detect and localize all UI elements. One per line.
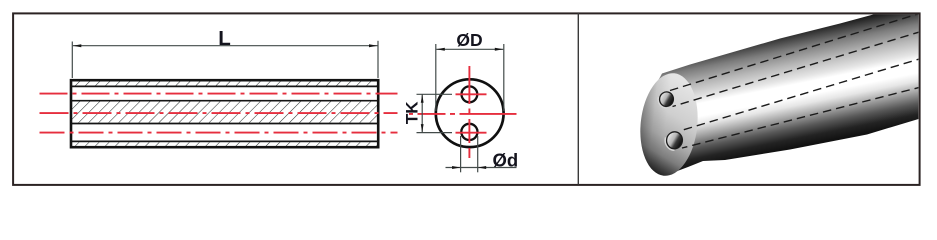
dimension TK: bottom extension line: [417, 132, 453, 134]
rod end face: [635, 70, 702, 178]
section: red centerline top hole: [456, 93, 488, 95]
section: red vertical centerline: [468, 66, 470, 160]
section: top hole circle: [462, 86, 478, 102]
outer frame: [13, 13, 920, 185]
side view: red centerline top hole: [40, 93, 398, 95]
svg-text:Ød: Ød: [493, 150, 519, 171]
section: big circle: [436, 79, 504, 147]
dashed hidden line 3 (bottom hole upper): [680, 59, 922, 132]
end face top hole: [658, 91, 674, 108]
dimension TK: top arrow: [421, 94, 424, 103]
dimension TK: bottom arrow: [421, 124, 424, 133]
end face bottom hole: [665, 131, 684, 150]
svg-text:ØD: ØD: [456, 30, 482, 50]
section: red centerline bottom hole: [456, 132, 488, 134]
end face left rim shade: [635, 70, 702, 178]
dashed hidden line 4 (bottom hole lower): [682, 87, 921, 148]
dimension D: right extension line: [503, 44, 505, 111]
svg-text:L: L: [218, 27, 231, 50]
section: red horizontal centerline: [409, 113, 517, 115]
side view: top hole upper line: [71, 85, 378, 87]
rod body: [645, 1, 925, 174]
right panel 3D rod: [635, 1, 925, 179]
side view: bottom hole lower line: [71, 140, 378, 142]
dimension D: right arrow: [495, 48, 504, 51]
dimension d: line with shoulder: [446, 167, 517, 169]
end face bottom hole rim light: [665, 130, 684, 150]
panel divider: [577, 13, 579, 185]
dimension L: line: [73, 45, 378, 47]
section: bottom hole circle: [461, 124, 477, 140]
dimension D: line: [436, 48, 503, 50]
dashed hidden line 1 (top hole upper): [670, 13, 921, 91]
side view: rod body outline: [71, 80, 378, 147]
dimension L: left arrow: [73, 44, 82, 47]
dimension L: right arrow: [369, 44, 378, 47]
dimension TK: top extension line: [417, 93, 453, 95]
dashed hidden line 2 (top hole lower): [673, 32, 922, 107]
dimension D: left arrow: [436, 48, 445, 51]
dimension d: left arrow (outside): [452, 166, 461, 169]
dimension L: right extension line: [377, 41, 379, 78]
side view: top hole lower line: [71, 100, 378, 102]
side view: red centerline bottom hole: [40, 132, 398, 134]
dimension D: left extension line: [435, 44, 437, 111]
dimension L: left extension line: [71, 42, 73, 79]
dimension d: right arrow (outside): [478, 166, 487, 169]
side view: red centerline axis: [40, 112, 398, 114]
side view: hatch band top: [71, 81, 378, 86]
side view: bottom hole upper line: [71, 123, 378, 125]
svg-text:TK: TK: [402, 101, 421, 124]
dimension d: right extension line: [477, 136, 479, 172]
side view: hatch band bottom: [71, 142, 378, 146]
dimension d: left extension line: [460, 136, 462, 172]
end face top hole rim light: [658, 91, 675, 108]
dimension TK: line: [421, 94, 423, 132]
side view: hatch band middle: [71, 102, 378, 123]
